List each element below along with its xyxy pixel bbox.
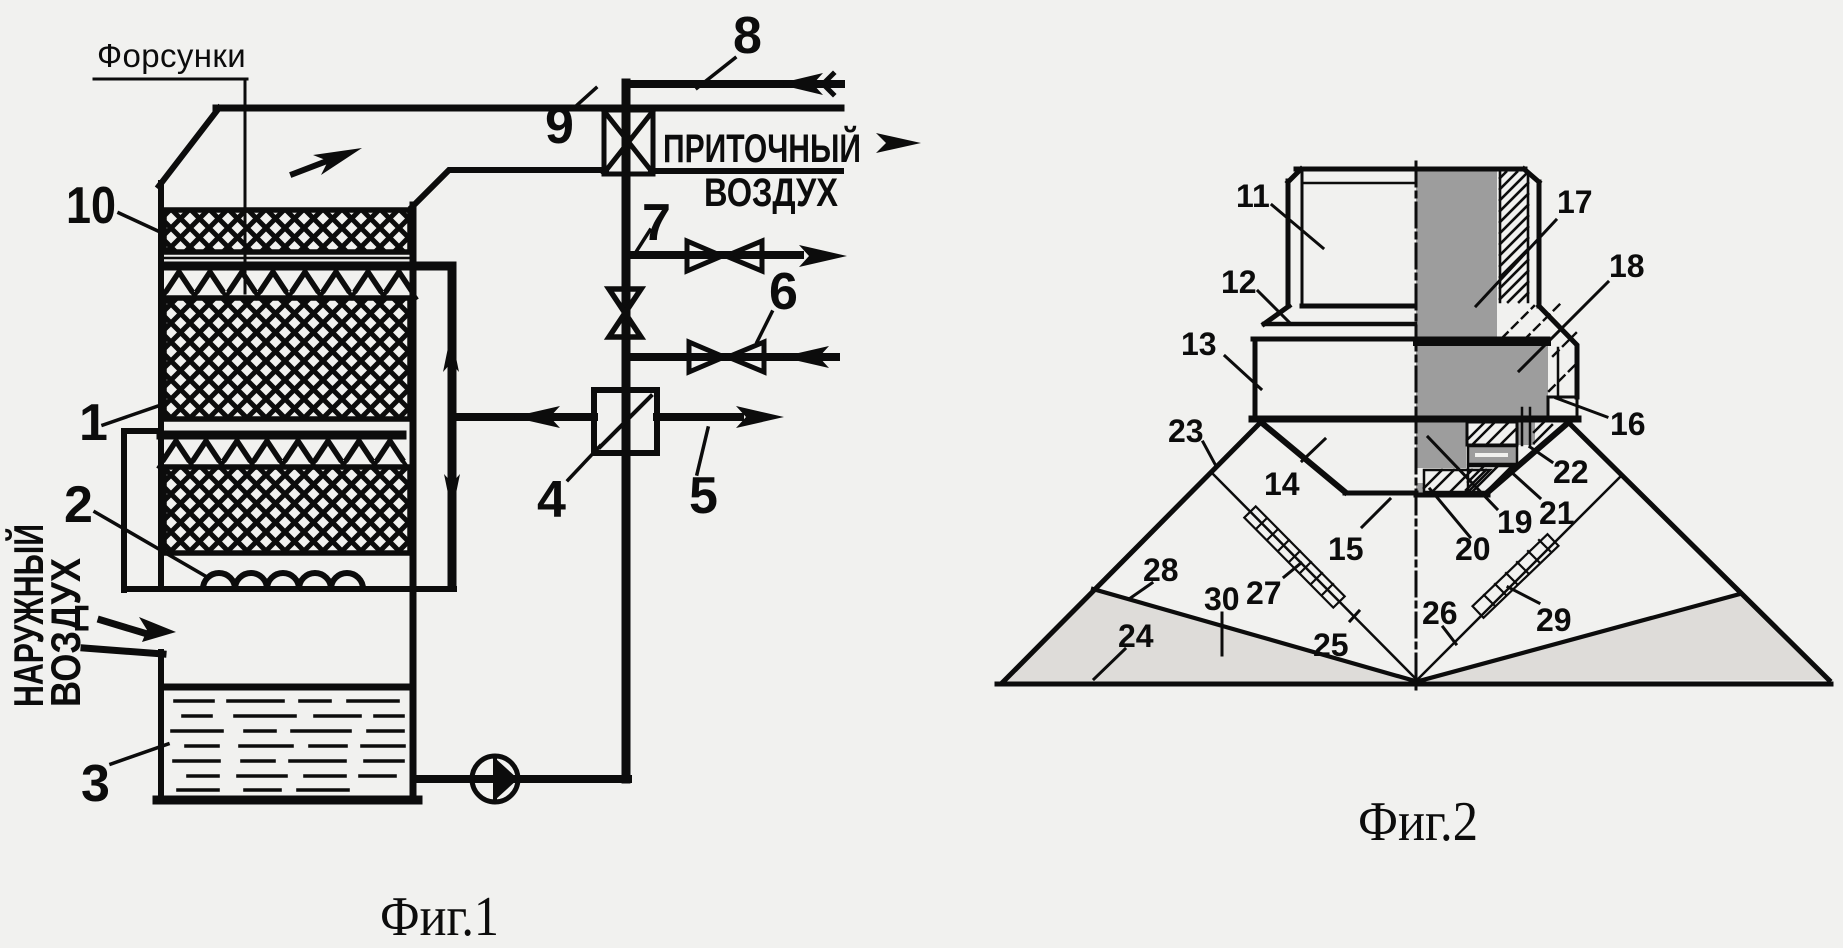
svg-text:12: 12 [1221,264,1257,300]
pipe 8 extra chevron [823,74,833,94]
svg-text:3: 3 [81,755,110,813]
label 7 [636,194,671,252]
label 14 [1264,439,1325,502]
flange bottom edge [1252,416,1578,423]
svg-text:26: 26 [1422,595,1458,631]
pipe 8 inlet arrow [777,73,823,95]
svg-text:7: 7 [642,194,671,252]
pin 21 [1522,408,1530,445]
label 19 [1428,437,1533,540]
lower spray nozzles row [159,441,407,467]
inline valve on riser [609,289,641,337]
svg-text:5: 5 [689,467,718,525]
svg-text:Фиг.1: Фиг.1 [380,886,499,948]
label 12 [1221,264,1290,323]
exchanger outlet pipe [657,413,740,421]
label 10 [66,177,158,235]
scrubber chamber top-left slanted hood [159,108,219,186]
Форсунки underline [94,78,247,81]
branch 6 inlet arrow [781,346,829,368]
small hatch right of pin [1534,422,1552,443]
label 8 [697,7,762,88]
spacer 20 outline with gap [1468,446,1517,464]
exchanger outlet arrow [736,406,784,428]
tank left wall [158,652,164,800]
hex cap left face line [1301,172,1304,306]
label 11 [1236,178,1323,248]
valve on branch 7 [687,241,762,271]
ring inner line [1557,348,1560,396]
label 1 [79,394,158,452]
НАРУЖНЫЙ ВОЗДУХ label (vertical) [4,524,89,707]
label 18 [1519,248,1645,371]
label 30 [1204,581,1240,655]
nozzle section dark fill: spacer ring 20 area [1468,446,1517,464]
ground baseline [997,682,1831,687]
heat exchanger 4 [594,390,657,453]
riser loop down arrow [444,474,460,513]
svg-text:9: 9 [545,97,574,155]
supply air outlet arrow [876,133,921,153]
svg-text:19: 19 [1497,504,1533,540]
label 26 [1422,595,1458,644]
ПРИТОЧНЫЙ ВОЗДУХ label [663,125,861,215]
flange 13 top edge [1253,337,1548,342]
spray axis line 26 (right thin) [1418,477,1620,679]
svg-text:4: 4 [537,471,566,529]
exchanger left arrow [512,406,560,428]
hex cap right chamfer [1524,169,1539,182]
svg-text:ВОЗДУХ: ВОЗДУХ [704,171,838,215]
label 6 [757,263,798,342]
label 9 [545,88,596,155]
cone 14 surface (left) [1262,423,1345,492]
nozzle bottom rim left [1345,491,1416,496]
nozzle section dark fill: strip right of insert [1517,422,1535,445]
label 27 [1246,563,1301,611]
flange 13 left edge [1253,339,1258,418]
svg-text:25: 25 [1313,627,1349,663]
pump suction pipe [418,775,628,783]
riser loop up arrow [443,333,459,372]
svg-text:27: 27 [1246,575,1282,611]
nozzle section dark fill: hex/thread right half [1416,170,1497,339]
svg-text:11: 11 [1236,178,1270,214]
spray boundary line 28 (left) [1093,589,1415,681]
hex cap chamfer line [1302,182,1415,185]
nozzle bottom rim right (insert bottom) [1416,493,1488,498]
branch pipe 6 [630,353,836,361]
label 24 [1094,618,1154,679]
label 23 [1168,413,1216,466]
pipe from riser loop to exchanger [452,413,594,421]
scrubber chamber right wall [410,205,417,800]
thread dashed lines [1502,302,1576,391]
supply duct bottom wall (right of damper) [651,168,841,174]
air flow arrow in duct [293,148,362,175]
turbulence band 27 [1244,506,1344,607]
svg-text:10: 10 [66,177,116,235]
thread 17 right profile [1539,306,1577,397]
damper valve 9 [604,110,653,174]
svg-text:Форсунки: Форсунки [97,37,246,74]
upper spray header pipe and recirculation riser [164,266,452,587]
heater coil support line [124,586,454,592]
upper spray nozzles row [162,272,416,298]
tank water surface line [164,684,412,691]
spray sector 24 (left grey) [1003,589,1414,682]
gasket 19 (hatched block) [1424,470,1490,492]
centerline [1415,162,1418,694]
svg-text:8: 8 [733,7,762,65]
nozzle section dark fill: body 18 [1416,342,1548,419]
outer jacket wall (left) [124,431,160,590]
hex cap 11 top edge [1296,167,1525,172]
label 13 [1181,326,1261,389]
taper 12 bottom line [1264,322,1415,327]
svg-text:2: 2 [64,476,93,534]
svg-text:22: 22 [1553,454,1589,490]
tank bottom [157,796,418,805]
nozzle section dark fill: corner notch [1416,483,1425,496]
label 5 [689,428,718,525]
hex cap left chamfer [1288,169,1301,182]
body 18 top thick edge [1416,340,1548,346]
spray axis line 25/23 (left thin) [1212,473,1416,679]
svg-text:ВОЗДУХ: ВОЗДУХ [42,558,89,707]
branch pipe 7 [630,251,800,259]
svg-text:18: 18 [1609,248,1645,284]
retaining ring 16 [1548,397,1577,418]
lower spray header pipe [161,431,402,440]
label 21 [1509,470,1575,531]
swirl insert 22 (hatched) [1467,422,1517,445]
taper 12 slant [1264,306,1289,324]
hex cap right outer edge [1537,182,1542,306]
label 17 [1476,184,1593,306]
valve on branch 6 [689,342,764,372]
svg-text:17: 17 [1557,184,1593,220]
spray sector right grey [1419,594,1827,681]
svg-text:21: 21 [1539,495,1575,531]
turbulence band 29 [1473,534,1559,618]
spray cone outer left edge [1002,425,1258,683]
label 16 [1556,398,1646,442]
label 4 [537,446,600,529]
main riser pipe [622,86,631,779]
hex cap bottom edge (left half) [1302,304,1415,309]
label 2 [64,476,207,577]
svg-text:16: 16 [1610,406,1646,442]
svg-text:14: 14 [1264,466,1300,502]
heater coil bumps [203,573,363,589]
lower insert (hatched) [1468,466,1516,492]
label 20 [1430,489,1491,567]
svg-text:29: 29 [1536,602,1572,638]
svg-text:15: 15 [1328,531,1364,567]
scrubber chamber left wall [158,183,164,589]
packing layer 10 (top cross-hatch band) [164,210,410,252]
cone surface (right, section) [1488,422,1569,492]
svg-text:23: 23 [1168,413,1204,449]
svg-text:Фиг.2: Фиг.2 [1358,791,1478,853]
nozzle section dark fill: lower centre column [1416,419,1466,468]
fresh air pipe 8 [626,80,841,88]
label 22 [1530,447,1589,490]
pipe 8 to damper connector [622,83,631,114]
Форсунки pointer line [244,79,247,293]
svg-text:20: 20 [1455,531,1491,567]
label 25 [1313,611,1359,663]
spray cone outer right edge [1569,423,1829,680]
label 15 [1328,499,1390,567]
label 28 [1129,552,1179,599]
label 3 [81,744,168,813]
svg-text:ПРИТОЧНЫЙ: ПРИТОЧНЫЙ [663,125,861,171]
water surface dashes [172,701,404,790]
Форсунки label [97,37,246,74]
packing layer 2 (bottom cross-hatch band) [164,467,410,553]
spray boundary line (right) [1419,594,1740,681]
packing layer 1 (main cross-hatch band) [164,298,410,419]
svg-text:13: 13 [1181,326,1217,362]
branch 7 outlet arrow [799,245,847,267]
hex wall hatching (section) [1500,172,1528,302]
thin divider line under layer 10 [164,257,410,260]
supply duct bottom wall (left of damper) [412,170,606,207]
label 29 [1508,587,1572,638]
outside air arrows [101,617,176,642]
svg-text:28: 28 [1143,552,1179,588]
outside air inlet lip [84,648,163,654]
hex cap left outer edge [1286,181,1291,306]
pump P [472,756,518,802]
supply duct top wall [216,105,841,112]
